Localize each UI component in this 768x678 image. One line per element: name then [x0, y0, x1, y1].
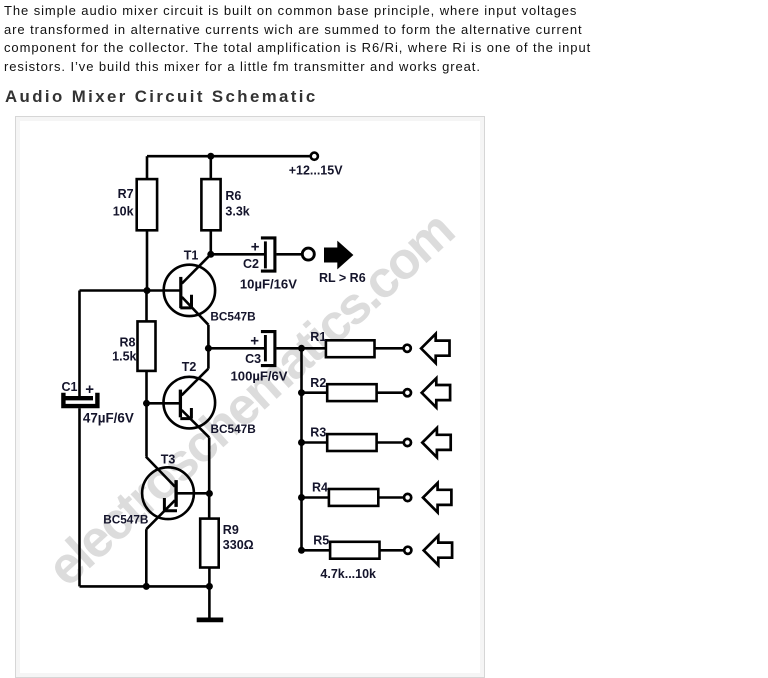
terminal R1 [404, 345, 411, 352]
wire R8 bottom to T3 [145, 371, 148, 457]
svg-text:330Ω: 330Ω [223, 538, 254, 552]
label + C2 [243, 239, 260, 271]
resistor R2 [327, 384, 376, 401]
svg-text:T3: T3 [161, 453, 176, 467]
wire to C2 [211, 253, 264, 256]
wire R9 bottom [208, 568, 211, 587]
svg-text:R2: R2 [310, 376, 326, 390]
wire R1 row [302, 347, 404, 350]
label 47uF/6V [83, 410, 134, 425]
wire R7 bottom [146, 230, 149, 290]
input arrow 2 [422, 378, 450, 407]
wire left vertical to C1 [78, 291, 81, 397]
node R5 bus junction [298, 547, 305, 554]
svg-text:+12...15V: +12...15V [289, 164, 344, 178]
resistor R7 [137, 179, 157, 230]
wire C3 to bus [277, 347, 302, 350]
label BC547B T2 [211, 422, 256, 436]
svg-text:10k: 10k [113, 204, 134, 218]
wire C1 bottom [78, 408, 81, 586]
svg-text:4.7k...10k: 4.7k...10k [320, 567, 376, 581]
heading [5, 88, 318, 106]
svg-text:3.3k: 3.3k [225, 204, 249, 218]
label BC547B T1 [210, 309, 255, 323]
svg-text:T1: T1 [184, 248, 199, 262]
wire R6 bottom [210, 230, 213, 254]
svg-text:100µF/6V: 100µF/6V [231, 369, 288, 384]
node R4 bus junction [298, 494, 305, 501]
svg-text:R3: R3 [310, 426, 326, 440]
terminal R3 [404, 439, 411, 446]
resistor R6 [201, 179, 220, 230]
terminal +12V [311, 153, 318, 160]
wire T1 base [80, 289, 181, 292]
terminal R2 [404, 389, 411, 396]
label C1 + [62, 380, 95, 398]
ground [197, 618, 224, 623]
label 4.7k...10k [320, 567, 376, 581]
svg-text:C1: C1 [62, 380, 78, 394]
node rail junction [207, 153, 214, 160]
svg-text:T2: T2 [182, 360, 197, 374]
svg-text:+: + [251, 239, 260, 256]
label +12...15V [289, 164, 344, 178]
svg-text:R7: R7 [118, 187, 134, 201]
svg-text:R6: R6 [225, 189, 241, 203]
svg-text:10µF/16V: 10µF/16V [240, 276, 297, 291]
svg-text:R1: R1 [310, 330, 326, 344]
wire T3 base [177, 492, 209, 495]
label T3 [161, 453, 176, 467]
wire R6 top [210, 156, 213, 179]
svg-text:R8: R8 [120, 335, 136, 349]
wire T1 emitter vertical [207, 325, 210, 369]
label R2 [310, 376, 326, 390]
svg-text:R9: R9 [223, 523, 239, 537]
node R2 bus junction [298, 389, 305, 396]
wire R4 row [302, 496, 404, 499]
transistor T2 [164, 369, 216, 438]
label R1 [310, 330, 326, 344]
wire input bus vertical [300, 348, 303, 550]
label + C3 [245, 333, 261, 366]
input arrow 1 [421, 334, 449, 363]
label 100uF/6V [231, 369, 288, 384]
wire T2 base [147, 402, 180, 405]
label BC547B T3 [103, 513, 148, 527]
wire ground stub [208, 586, 211, 617]
node rail right junction [206, 583, 213, 590]
node R3 bus junction [298, 439, 305, 446]
wire R2 row [302, 391, 404, 394]
transistor T3 [142, 457, 194, 530]
node T1 base junction [144, 287, 151, 294]
node rail left junction [143, 583, 150, 590]
svg-text:BC547B: BC547B [211, 422, 256, 436]
label 10uF/16V [240, 276, 297, 291]
svg-text:47µF/6V: 47µF/6V [83, 410, 134, 425]
node C3 junction [205, 345, 212, 352]
node T2 base junction [143, 400, 150, 407]
terminal R4 [404, 494, 411, 501]
wire to C3 [208, 347, 264, 350]
wire R5 row [302, 549, 404, 552]
wire top rail [147, 155, 310, 158]
svg-text:BC547B: BC547B [103, 513, 148, 527]
transistor T1 [164, 254, 215, 324]
wire T2 emitter vertical [208, 437, 211, 518]
resistor R5 [330, 542, 379, 559]
label R8 1.5k [112, 335, 136, 363]
label R6 3.3k [225, 189, 249, 218]
label R3 [310, 426, 326, 440]
wire R3 row [302, 441, 404, 444]
capacitor C3 [261, 332, 275, 366]
wire bottom rail [80, 585, 210, 588]
node T3 base junction [206, 490, 213, 497]
terminal C2 out [302, 248, 314, 260]
label R5 [313, 533, 329, 547]
label RL > R6 [319, 271, 366, 285]
node C2 junction [207, 251, 214, 258]
wire C2 output [277, 253, 303, 256]
label R9 330ohm [223, 523, 254, 552]
svg-text:C2: C2 [243, 257, 259, 271]
wire R8 top [145, 291, 148, 322]
input arrow 5 [424, 536, 452, 565]
label T1 [184, 248, 199, 262]
intro paragraph [4, 2, 591, 76]
node R1 bus junction [298, 345, 305, 352]
input arrow 4 [423, 483, 451, 512]
svg-text:R4: R4 [312, 481, 328, 495]
schematic frame box [15, 116, 485, 678]
label T2 [182, 360, 197, 374]
resistor R1 [326, 340, 375, 357]
svg-text:1.5k: 1.5k [112, 349, 136, 363]
watermark electroschematics.com [36, 201, 465, 598]
capacitor C1 [63, 393, 97, 406]
svg-text:+: + [250, 333, 259, 350]
label R7 10k [113, 187, 134, 218]
svg-text:C3: C3 [245, 352, 261, 366]
label R4 [312, 481, 328, 495]
svg-text:R5: R5 [313, 533, 329, 547]
resistor R9 [200, 519, 219, 568]
wire T3 emitter vertical [145, 529, 148, 586]
resistor R8 [138, 321, 156, 371]
input arrow 3 [422, 428, 450, 457]
terminal R5 [404, 547, 411, 554]
resistor R3 [327, 434, 376, 451]
svg-text:+: + [85, 381, 94, 398]
svg-text:BC547B: BC547B [210, 309, 255, 323]
capacitor C2 [261, 238, 275, 271]
arrow RL output [324, 241, 353, 270]
wire R7 top [146, 156, 149, 179]
svg-text:RL > R6: RL > R6 [319, 271, 366, 285]
resistor R4 [329, 489, 378, 506]
